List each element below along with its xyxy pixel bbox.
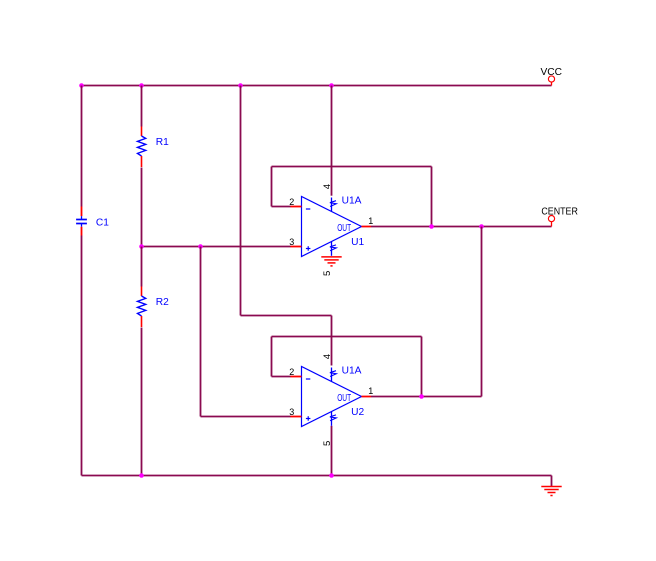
wire U1 feedback top horizontal (272, 166, 432, 168)
svg-text:OUT: OUT (337, 223, 351, 234)
C1 top pin stub (81, 207, 83, 217)
node R1 top junction (139, 83, 144, 88)
U2 pin 5 power squiggle (330, 415, 336, 421)
U2 pin 3 stub (291, 416, 302, 418)
svg-text:2: 2 (289, 197, 294, 207)
U1 pin 5 (V-) lead (331, 242, 333, 256)
wire R1 to mid node (141, 168, 143, 247)
op-amp U2 non-inverting input marker (306, 418, 311, 420)
capacitor C1 (81, 216, 83, 219)
node R2 bottom junction (139, 473, 144, 478)
svg-text:U1: U1 (351, 237, 364, 248)
wire R2 to bottom rail (141, 328, 143, 476)
wire U1 output to CENTER (371, 226, 552, 228)
svg-text:U1A: U1A (342, 195, 362, 206)
wire U1 pin4 drop from rail (331, 86, 333, 196)
wire top VCC rail (82, 85, 552, 87)
U2 pin 4 power squiggle (330, 371, 336, 377)
node U2 feedback/output junction (419, 394, 424, 399)
wire mid node row (U1 pin3 net) (142, 246, 291, 248)
op-amp U1 inverting input marker (306, 208, 310, 210)
resistor R2 (141, 287, 143, 297)
U2 pin 5 (V-) lead (331, 412, 333, 426)
svg-text:1: 1 (368, 386, 373, 396)
U2 pin 4 (V+) lead (331, 368, 333, 382)
svg-text:U2: U2 (351, 407, 364, 418)
U1 pin 5 power squiggle (330, 245, 336, 251)
wire U2 feedback top horizontal (272, 336, 422, 338)
svg-text:R2: R2 (156, 297, 169, 308)
svg-text:3: 3 (289, 237, 294, 247)
C1 bottom pin stub (81, 227, 83, 236)
wire branch down to U2 pin3 net (200, 247, 202, 417)
wire R1 column from rail (141, 86, 143, 127)
wire bottom ground rail (82, 475, 552, 477)
node U1 feedback/output junction (429, 224, 434, 229)
U1 pin 3 stub (291, 246, 302, 248)
node riser-A top junction (238, 83, 243, 88)
wire riser-A vertical from rail (240, 86, 242, 316)
svg-text:OUT: OUT (337, 393, 351, 404)
wire bottom rail drop to ground (551, 476, 553, 487)
svg-text:1: 1 (368, 216, 373, 226)
wire mid node to R2 (141, 247, 143, 287)
svg-text:3: 3 (289, 407, 294, 417)
node U2 pin5 bottom junction (329, 473, 334, 478)
svg-text:U1A: U1A (342, 365, 362, 376)
node top-left corner junction (79, 83, 84, 88)
svg-text:5: 5 (322, 271, 333, 276)
svg-text:R1: R1 (156, 137, 169, 148)
U2 pin 1 stub (362, 396, 372, 398)
wire riser-A down to U2 pin4 (331, 316, 333, 366)
svg-text:VCC: VCC (541, 67, 563, 78)
U1 pin 4 (V+) lead (331, 198, 333, 212)
wire riser-A horizontal (241, 315, 332, 317)
wire U1 feedback left vertical (271, 167, 273, 207)
svg-text:4: 4 (322, 353, 333, 359)
U1 pin 1 stub (362, 226, 372, 228)
wire U2 feedback left vertical (271, 337, 273, 377)
ground symbol bottom right (541, 486, 561, 488)
wire U2 feedback left horizontal (272, 376, 291, 378)
wire U2 feedback right vertical (421, 337, 423, 397)
node pin3 net branch junction (198, 244, 203, 249)
U1 pin 2 stub (291, 206, 302, 208)
svg-text:CENTER: CENTER (541, 207, 578, 218)
wire U2 pin3 net row (201, 416, 291, 418)
wire U1 feedback left horizontal (272, 206, 291, 208)
op-amp U1 non-inverting input marker (306, 248, 311, 250)
svg-text:C1: C1 (96, 217, 109, 228)
power port VCC (548, 76, 554, 82)
ground symbol at U1 pin 5 (321, 256, 341, 258)
port CENTER (548, 216, 554, 222)
resistor R1 (141, 127, 143, 137)
op-amp U2 body (302, 367, 362, 427)
wire U2 output horizontal (371, 396, 482, 398)
U2 pin 2 stub (291, 376, 302, 378)
U1 pin 4 power squiggle (330, 201, 336, 207)
svg-text:5: 5 (322, 441, 333, 446)
svg-text:2: 2 (289, 367, 294, 377)
wire left column lower (81, 236, 83, 476)
node U1 pin4 top junction (329, 83, 334, 88)
wire left column upper (to C1) (81, 86, 83, 207)
svg-text:4: 4 (322, 183, 333, 189)
node R1/R2 divider junction (139, 244, 144, 249)
op-amp U1 body (302, 197, 362, 257)
wire U2 pin5 to bottom rail (331, 426, 333, 476)
wire U1 feedback right vertical (431, 167, 433, 227)
wire U2 output riser to CENTER net (481, 227, 483, 397)
node CENTER/U2-riser junction (479, 224, 484, 229)
op-amp U2 inverting input marker (306, 378, 310, 380)
